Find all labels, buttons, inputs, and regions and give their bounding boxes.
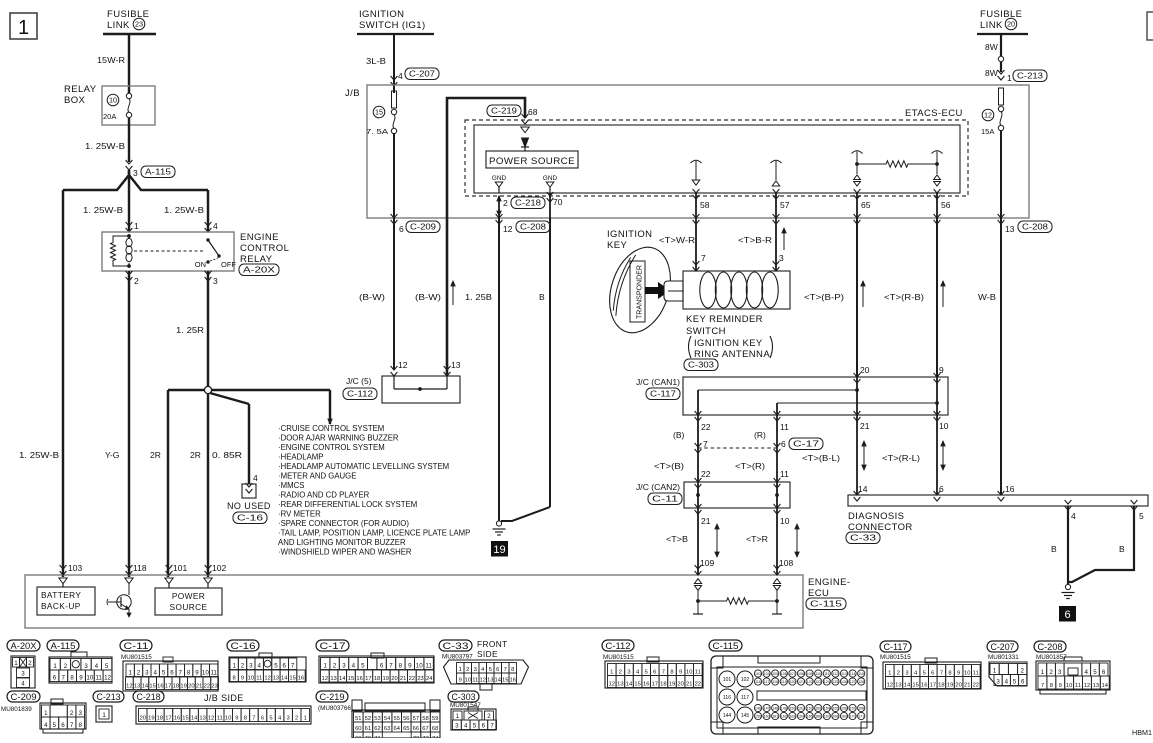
svg-text:2: 2	[28, 660, 32, 667]
svg-text:10: 10	[780, 516, 790, 526]
svg-text:15: 15	[502, 678, 508, 684]
svg-text:1: 1	[14, 660, 18, 667]
svg-text:14: 14	[626, 682, 633, 688]
svg-text:14: 14	[904, 683, 911, 689]
svg-text:A-20X: A-20X	[243, 266, 276, 275]
svg-text:8: 8	[233, 676, 236, 682]
svg-text:12: 12	[480, 678, 486, 684]
svg-text:B: B	[1119, 544, 1125, 554]
svg-text:20: 20	[188, 684, 194, 690]
svg-text:63: 63	[384, 726, 390, 732]
svg-text:9: 9	[459, 678, 462, 684]
svg-text:2: 2	[619, 670, 622, 676]
svg-text:20: 20	[140, 716, 146, 722]
svg-text:22: 22	[409, 676, 415, 682]
svg-text:12: 12	[126, 684, 132, 690]
svg-text:7: 7	[662, 670, 665, 676]
svg-text:101: 101	[173, 563, 187, 573]
svg-text:12: 12	[984, 111, 992, 120]
svg-text:6: 6	[482, 723, 486, 730]
svg-text:15: 15	[289, 676, 295, 682]
svg-text:J/C (CAN2): J/C (CAN2)	[636, 482, 680, 492]
svg-text:7: 7	[62, 675, 66, 682]
svg-text:6: 6	[399, 224, 404, 234]
svg-text:C-209: C-209	[11, 692, 37, 703]
svg-text:(B-W): (B-W)	[359, 292, 385, 302]
svg-text:7: 7	[252, 716, 255, 722]
svg-text:103: 103	[755, 672, 761, 676]
svg-text:6: 6	[496, 667, 499, 673]
svg-text:2R: 2R	[150, 450, 161, 460]
svg-text:7: 7	[504, 667, 507, 673]
svg-text:OFF: OFF	[221, 260, 236, 269]
svg-text:18: 18	[157, 716, 163, 722]
svg-text:117: 117	[764, 680, 770, 684]
svg-text:·WINDSHIELD WIPER AND WASHER: ·WINDSHIELD WIPER AND WASHER	[278, 548, 412, 557]
svg-text:MU801331: MU801331	[988, 654, 1019, 661]
svg-text:57: 57	[780, 200, 790, 210]
svg-text:RING ANTENNA: RING ANTENNA	[694, 349, 770, 360]
svg-text:121: 121	[798, 680, 804, 684]
svg-text:22: 22	[701, 422, 711, 432]
svg-text:56: 56	[941, 200, 951, 210]
svg-text:ETACS-ECU: ETACS-ECU	[905, 108, 963, 119]
svg-text:12: 12	[104, 675, 111, 682]
svg-text:123: 123	[815, 680, 821, 684]
svg-text:144: 144	[723, 713, 732, 719]
svg-text:SIDE: SIDE	[477, 649, 498, 659]
svg-text:C-112: C-112	[347, 390, 374, 399]
svg-text:109: 109	[700, 558, 714, 568]
svg-text:2: 2	[295, 716, 298, 722]
svg-text:W-B: W-B	[978, 292, 996, 302]
svg-text:ENGINE-: ENGINE-	[808, 577, 850, 588]
svg-text:J/B: J/B	[345, 88, 360, 99]
svg-text:3: 3	[342, 663, 346, 670]
svg-text:C-219: C-219	[491, 107, 518, 116]
svg-text:16: 16	[298, 676, 304, 682]
svg-text:6: 6	[170, 670, 174, 677]
svg-text:11: 11	[95, 675, 102, 682]
svg-text:8W: 8W	[985, 42, 998, 52]
svg-text:6: 6	[380, 663, 384, 670]
svg-text:116: 116	[723, 695, 731, 701]
svg-text:11: 11	[780, 422, 789, 432]
svg-text:159: 159	[755, 715, 761, 719]
svg-text:14: 14	[191, 716, 198, 722]
svg-text:J/B SIDE: J/B SIDE	[204, 693, 244, 703]
svg-text:FRONT: FRONT	[477, 639, 508, 649]
svg-text:1. 25W-B: 1. 25W-B	[83, 205, 123, 215]
svg-text:A-20X: A-20X	[11, 641, 38, 652]
svg-text:5: 5	[274, 663, 278, 670]
svg-text:118: 118	[133, 563, 147, 573]
svg-text:C-207: C-207	[991, 642, 1015, 653]
svg-text:10: 10	[202, 670, 209, 677]
svg-text:4: 4	[464, 723, 468, 730]
svg-text:MU801515: MU801515	[121, 654, 152, 661]
svg-text:1: 1	[134, 221, 139, 231]
svg-text:C-11: C-11	[652, 495, 679, 504]
svg-text:POWER SOURCE: POWER SOURCE	[489, 156, 575, 166]
svg-text:107: 107	[789, 672, 795, 676]
svg-text:B: B	[539, 292, 545, 302]
svg-text:5: 5	[473, 723, 477, 730]
svg-text:22: 22	[701, 469, 711, 479]
svg-text:4: 4	[352, 663, 356, 670]
svg-text:168: 168	[832, 715, 838, 719]
svg-text:6: 6	[53, 675, 57, 682]
svg-text:3: 3	[133, 168, 138, 178]
svg-text:13: 13	[487, 678, 493, 684]
svg-text:16: 16	[1005, 484, 1015, 494]
svg-text:15: 15	[149, 684, 155, 690]
svg-text:7: 7	[179, 670, 183, 677]
svg-text:10: 10	[225, 716, 231, 722]
svg-text:2: 2	[503, 198, 508, 208]
svg-text:9: 9	[1059, 683, 1062, 689]
svg-text:3: 3	[287, 716, 290, 722]
svg-text:·HEADLAMP AUTOMATIC LEVELLING: ·HEADLAMP AUTOMATIC LEVELLING SYSTEM	[278, 462, 449, 471]
svg-text:(B): (B)	[673, 430, 685, 440]
svg-text:106: 106	[781, 672, 787, 676]
svg-text:6: 6	[261, 716, 264, 722]
svg-text:<T>W-R: <T>W-R	[659, 235, 695, 245]
svg-text:16: 16	[174, 716, 180, 722]
svg-text:ECU: ECU	[808, 588, 829, 599]
svg-text:51: 51	[355, 716, 361, 722]
svg-text:8: 8	[670, 670, 673, 676]
svg-text:ENGINE: ENGINE	[240, 232, 279, 243]
svg-text:18: 18	[660, 682, 666, 688]
svg-text:C-112: C-112	[606, 641, 631, 652]
svg-text:162: 162	[781, 715, 787, 719]
svg-text:24: 24	[426, 676, 433, 682]
svg-text:57: 57	[413, 716, 419, 722]
svg-text:66: 66	[413, 726, 419, 732]
svg-text:153: 153	[815, 707, 821, 711]
svg-text:C-208: C-208	[520, 223, 547, 232]
svg-text:154: 154	[824, 707, 830, 711]
svg-text:8: 8	[1050, 683, 1053, 689]
svg-text:2: 2	[70, 710, 74, 717]
svg-text:3L-B: 3L-B	[366, 56, 386, 66]
svg-text:52: 52	[365, 716, 371, 722]
svg-text:110: 110	[815, 672, 821, 676]
svg-text:Y-G: Y-G	[105, 450, 119, 460]
svg-text:155: 155	[832, 707, 838, 711]
svg-text:171: 171	[858, 715, 864, 719]
svg-text:13: 13	[1005, 224, 1015, 234]
svg-text:4: 4	[257, 663, 261, 670]
svg-text:·MMCS: ·MMCS	[278, 481, 304, 490]
svg-text:A-115: A-115	[51, 641, 76, 652]
svg-text:9: 9	[679, 670, 682, 676]
svg-text:(B-W): (B-W)	[415, 292, 441, 302]
svg-text:16: 16	[921, 683, 927, 689]
svg-text:6: 6	[1021, 679, 1025, 686]
svg-text:4: 4	[95, 663, 99, 670]
svg-text:15W-R: 15W-R	[97, 55, 125, 65]
svg-text:·ENGINE CONTROL SYSTEM: ·ENGINE CONTROL SYSTEM	[278, 443, 385, 452]
svg-text:65: 65	[403, 726, 409, 732]
svg-text:20A: 20A	[103, 112, 116, 121]
svg-text:·SPARE CONNECTOR (FOR AUDIO): ·SPARE CONNECTOR (FOR AUDIO)	[278, 519, 409, 528]
svg-text:8: 8	[948, 671, 951, 677]
svg-text:68: 68	[528, 107, 538, 117]
svg-text:4: 4	[1085, 669, 1089, 676]
svg-text:20: 20	[955, 683, 961, 689]
svg-text:4: 4	[253, 473, 258, 483]
svg-text:118: 118	[772, 680, 778, 684]
svg-text:11: 11	[472, 678, 478, 684]
svg-text:1: 1	[1041, 669, 1045, 676]
svg-text:1: 1	[323, 663, 327, 670]
svg-text:167: 167	[824, 715, 830, 719]
svg-text:13: 13	[199, 716, 205, 722]
svg-text:C-117: C-117	[884, 642, 908, 653]
svg-text:9: 9	[79, 675, 83, 682]
svg-text:·HEADLAMP: ·HEADLAMP	[278, 453, 324, 462]
svg-text:22: 22	[973, 683, 979, 689]
svg-text:10: 10	[416, 663, 423, 670]
svg-text:20: 20	[1007, 20, 1015, 29]
svg-text:2: 2	[241, 663, 245, 670]
svg-text:1. 25R: 1. 25R	[176, 325, 204, 335]
svg-text:1: 1	[128, 670, 132, 677]
svg-text:<T>(R-L): <T>(R-L)	[882, 453, 920, 463]
svg-text:7. 5A: 7. 5A	[366, 127, 388, 136]
svg-text:10: 10	[964, 671, 970, 677]
svg-text:156: 156	[841, 707, 847, 711]
svg-text:20: 20	[860, 365, 870, 375]
svg-text:8: 8	[70, 675, 74, 682]
svg-text:12: 12	[322, 676, 328, 682]
svg-text:16: 16	[157, 684, 163, 690]
svg-text:53: 53	[374, 716, 380, 722]
svg-text:111: 111	[824, 672, 829, 676]
svg-text:60: 60	[355, 726, 361, 732]
svg-text:19: 19	[383, 676, 389, 682]
svg-text:18: 18	[173, 684, 179, 690]
svg-text:12: 12	[1084, 683, 1090, 689]
svg-text:114: 114	[850, 672, 856, 676]
svg-text:12: 12	[208, 716, 214, 722]
svg-text:C-207: C-207	[409, 70, 436, 79]
svg-text:MU801547: MU801547	[450, 702, 481, 709]
svg-text:9: 9	[195, 670, 199, 677]
svg-text:·CRUISE CONTROL SYSTEM: ·CRUISE CONTROL SYSTEM	[278, 424, 384, 433]
svg-text:2R: 2R	[190, 450, 201, 460]
svg-text:17: 17	[165, 716, 171, 722]
svg-text:8: 8	[187, 670, 191, 677]
svg-text:C-208: C-208	[1022, 223, 1049, 232]
svg-text:IGNITION: IGNITION	[359, 9, 404, 20]
svg-text:17: 17	[930, 683, 936, 689]
svg-text:5: 5	[361, 663, 365, 670]
svg-text:58: 58	[422, 716, 428, 722]
svg-text:54: 54	[384, 716, 391, 722]
svg-text:102: 102	[741, 677, 750, 683]
svg-text:13: 13	[273, 676, 279, 682]
svg-text:0. 85R: 0. 85R	[212, 450, 242, 460]
svg-text:<T>(R-B): <T>(R-B)	[884, 292, 924, 302]
svg-text:18: 18	[938, 683, 944, 689]
svg-text:15A: 15A	[981, 127, 994, 136]
svg-text:11: 11	[210, 670, 217, 677]
svg-text:125: 125	[832, 680, 838, 684]
svg-text:7: 7	[70, 722, 74, 729]
svg-text:104: 104	[764, 672, 770, 676]
svg-text:C-17: C-17	[793, 440, 820, 449]
svg-text:1: 1	[102, 712, 106, 719]
svg-text:6: 6	[653, 670, 656, 676]
svg-text:22: 22	[695, 682, 701, 688]
svg-text:12: 12	[398, 360, 408, 370]
svg-text:161: 161	[772, 715, 778, 719]
svg-text:109: 109	[807, 672, 813, 676]
svg-text:55: 55	[393, 716, 399, 722]
svg-text:2: 2	[1020, 668, 1024, 675]
svg-text:3: 3	[996, 679, 1000, 686]
svg-text:IGNITION: IGNITION	[607, 229, 652, 240]
svg-text:DIAGNOSIS: DIAGNOSIS	[848, 511, 904, 522]
svg-text:·TAIL LAMP, POSITION LAMP, LIC: ·TAIL LAMP, POSITION LAMP, LICENCE PLATE…	[278, 529, 470, 538]
svg-text:<T>B: <T>B	[666, 534, 688, 544]
svg-text:1: 1	[456, 713, 460, 720]
svg-text:108: 108	[779, 558, 793, 568]
svg-text:112: 112	[833, 672, 839, 676]
svg-text:IGNITION KEY: IGNITION KEY	[694, 338, 763, 349]
svg-text:4: 4	[44, 722, 48, 729]
svg-text:1: 1	[888, 671, 891, 677]
svg-text:5: 5	[269, 716, 272, 722]
svg-text:4: 4	[398, 71, 403, 81]
svg-text:119: 119	[781, 680, 787, 684]
svg-text:4: 4	[1005, 679, 1009, 686]
svg-text:ON: ON	[195, 260, 206, 269]
svg-text:GND: GND	[543, 175, 558, 182]
svg-text:127: 127	[850, 680, 856, 684]
svg-text:FUSIBLE: FUSIBLE	[980, 9, 1022, 20]
svg-text:102: 102	[212, 563, 226, 573]
svg-text:<T>R: <T>R	[746, 534, 768, 544]
svg-text:19: 19	[493, 544, 505, 556]
svg-text:21: 21	[196, 684, 202, 690]
svg-text:124: 124	[824, 680, 830, 684]
svg-text:1: 1	[232, 663, 236, 670]
svg-text:1: 1	[610, 670, 613, 676]
svg-text:10: 10	[939, 421, 949, 431]
svg-text:19: 19	[148, 716, 154, 722]
svg-text:10: 10	[1066, 683, 1072, 689]
svg-text:C-218: C-218	[515, 199, 542, 208]
svg-text:1: 1	[53, 663, 57, 670]
svg-text:4: 4	[21, 681, 25, 688]
svg-text:15: 15	[375, 108, 383, 117]
svg-text:·REAR DIFFERENTIAL LOCK SYSTEM: ·REAR DIFFERENTIAL LOCK SYSTEM	[278, 500, 417, 509]
svg-text:21: 21	[400, 676, 406, 682]
svg-text:1. 25W-B: 1. 25W-B	[164, 205, 204, 215]
svg-text:6: 6	[61, 722, 65, 729]
svg-text:20: 20	[677, 682, 683, 688]
svg-text:23: 23	[135, 20, 143, 29]
svg-text:22: 22	[204, 684, 210, 690]
svg-text:3: 3	[78, 710, 82, 717]
svg-text:8W: 8W	[985, 68, 998, 78]
svg-text:145: 145	[741, 713, 750, 719]
svg-text:3: 3	[84, 663, 88, 670]
svg-text:13: 13	[330, 676, 336, 682]
svg-text:13: 13	[617, 682, 623, 688]
svg-text:A-115: A-115	[145, 168, 172, 177]
svg-text:C-17: C-17	[320, 641, 346, 652]
svg-text:58: 58	[700, 200, 710, 210]
svg-text:J/C (CAN1): J/C (CAN1)	[636, 377, 680, 387]
svg-text:14: 14	[495, 678, 502, 684]
svg-text:7: 7	[940, 671, 943, 677]
svg-text:J/C (5): J/C (5)	[346, 376, 372, 386]
svg-text:3: 3	[249, 663, 253, 670]
svg-text:RELAY: RELAY	[64, 84, 97, 95]
svg-text:3: 3	[1058, 669, 1062, 676]
svg-text:11: 11	[695, 670, 701, 676]
svg-text:163: 163	[789, 715, 795, 719]
svg-text:7: 7	[389, 663, 393, 670]
svg-text:·RADIO AND CD PLAYER: ·RADIO AND CD PLAYER	[278, 491, 370, 500]
svg-text:MU801857: MU801857	[1036, 654, 1067, 661]
svg-text:C-33: C-33	[850, 534, 877, 543]
svg-text:2: 2	[897, 671, 900, 677]
svg-text:116: 116	[755, 680, 761, 684]
svg-text:15: 15	[634, 682, 640, 688]
svg-text:21: 21	[701, 516, 711, 526]
svg-text:149: 149	[781, 707, 787, 711]
svg-text:1: 1	[993, 668, 997, 675]
svg-text:2: 2	[333, 663, 337, 670]
svg-text:C-208: C-208	[1038, 642, 1063, 653]
svg-text:5: 5	[162, 670, 166, 677]
svg-text:19: 19	[947, 683, 953, 689]
svg-text:68: 68	[432, 726, 438, 732]
svg-text:C-303: C-303	[688, 361, 715, 370]
svg-text:148: 148	[772, 707, 778, 711]
svg-text:20: 20	[391, 676, 397, 682]
svg-text:126: 126	[841, 680, 847, 684]
svg-text:11: 11	[1075, 683, 1081, 689]
svg-text:15: 15	[912, 683, 918, 689]
svg-text:C-117: C-117	[650, 390, 677, 399]
svg-text:113: 113	[841, 672, 847, 676]
svg-text:5: 5	[1013, 679, 1017, 686]
svg-text:NO USED: NO USED	[227, 501, 271, 511]
svg-text:SOURCE: SOURCE	[170, 602, 208, 612]
svg-text:117: 117	[741, 695, 749, 701]
svg-text:170: 170	[850, 715, 856, 719]
svg-text:AND LIGHTING MONITOR BUZZER: AND LIGHTING MONITOR BUZZER	[278, 538, 406, 547]
svg-text:1: 1	[18, 17, 29, 39]
svg-text:C-219: C-219	[320, 692, 345, 703]
svg-text:C-115: C-115	[713, 641, 739, 652]
svg-text:2: 2	[134, 276, 139, 286]
svg-text:3: 3	[213, 276, 218, 286]
svg-text:3: 3	[21, 671, 25, 678]
svg-text:9: 9	[408, 663, 412, 670]
svg-text:<T>(B-L): <T>(B-L)	[802, 453, 840, 463]
svg-text:15: 15	[348, 676, 354, 682]
svg-text:17: 17	[365, 676, 371, 682]
svg-text:8: 8	[511, 667, 514, 673]
